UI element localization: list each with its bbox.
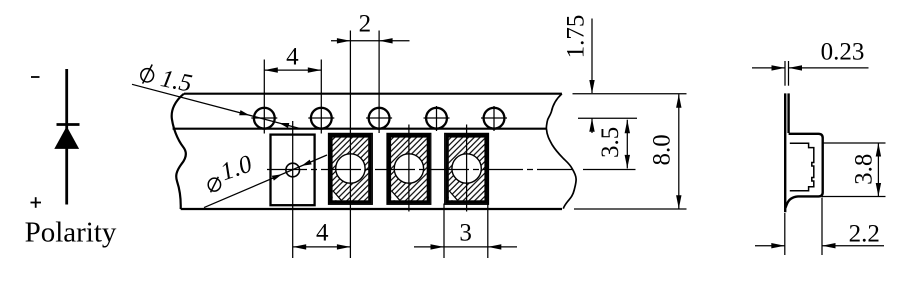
- svg-text:4: 4: [286, 44, 299, 71]
- svg-text:8.0: 8.0: [649, 134, 676, 165]
- svg-text:2: 2: [359, 11, 372, 38]
- svg-text:2.2: 2.2: [849, 220, 880, 247]
- svg-text:0.23: 0.23: [821, 39, 865, 66]
- svg-text:4: 4: [316, 219, 329, 246]
- svg-text:3.8: 3.8: [851, 154, 878, 185]
- svg-text:3.5: 3.5: [597, 127, 624, 158]
- svg-text:1.75: 1.75: [563, 15, 590, 59]
- svg-text:3: 3: [459, 219, 472, 246]
- svg-text:Polarity: Polarity: [25, 217, 117, 249]
